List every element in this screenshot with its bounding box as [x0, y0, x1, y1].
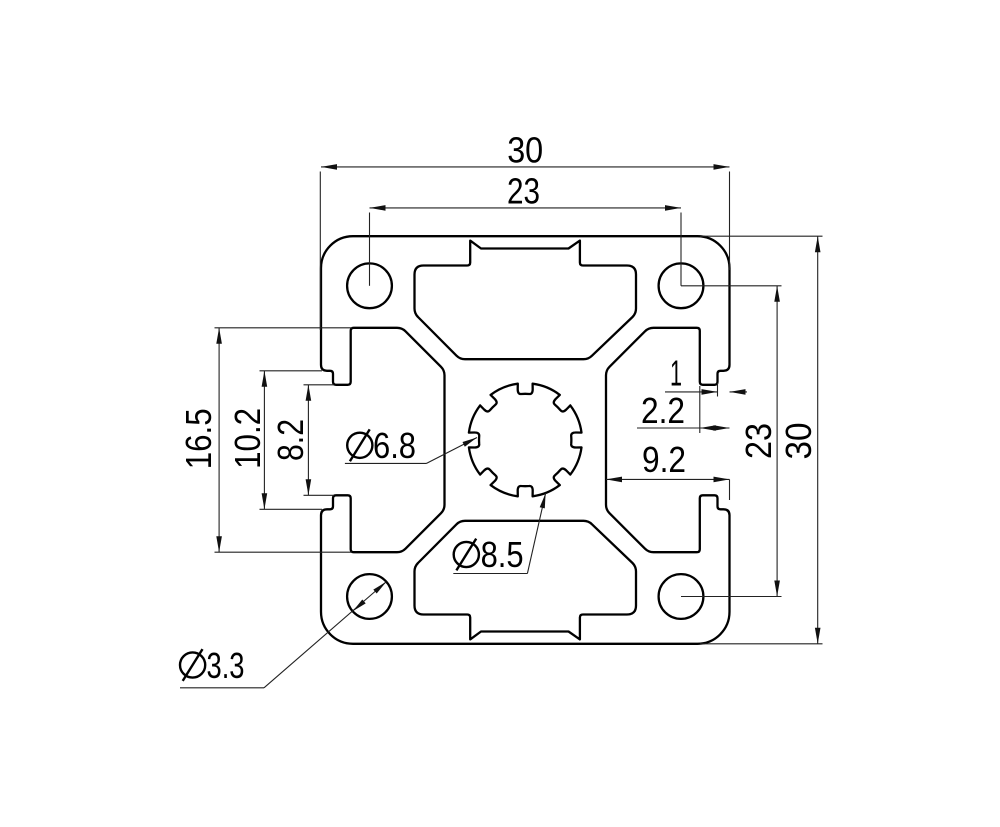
- label Ø8.5 (spline outer diameter) with leader: [453, 493, 545, 575]
- svg-text:2.2: 2.2: [641, 390, 685, 431]
- outer profile outline with left/right T-slot openings: [321, 236, 730, 644]
- dimension 8.2 (slot throat, left): [270, 385, 334, 496]
- corner hole top-right (Ø3.3): [659, 263, 704, 308]
- center spline bore: [469, 384, 582, 497]
- svg-text:1: 1: [670, 353, 682, 394]
- svg-text:8.2: 8.2: [270, 419, 311, 461]
- top cavity: [415, 241, 637, 360]
- svg-text:10.2: 10.2: [227, 408, 268, 469]
- dimension 23 (hole spacing, top): [370, 171, 682, 286]
- dimension 30 (overall height, right): [700, 236, 823, 644]
- svg-text:23: 23: [507, 171, 540, 212]
- dimension 30 (overall width, top): [320, 130, 729, 331]
- svg-text:30: 30: [507, 130, 543, 171]
- dimension 23 (hole spacing, right): [681, 286, 782, 597]
- svg-text:8.5: 8.5: [481, 534, 524, 575]
- corner hole top-left (Ø3.3): [347, 263, 392, 308]
- label Ø3.3 (corner hole diameter) with leader: [180, 582, 386, 688]
- svg-text:30: 30: [778, 423, 819, 460]
- dimension 2.2 (lip depth, right): [637, 386, 730, 433]
- svg-text:16.5: 16.5: [178, 408, 219, 469]
- svg-text:6.8: 6.8: [373, 425, 416, 466]
- label Ø6.8 (spline root diameter) with leader: [345, 425, 477, 466]
- svg-text:3.3: 3.3: [207, 645, 245, 686]
- dimension 1 (lip step width, right): [665, 353, 747, 397]
- corner hole bottom-right (Ø3.3): [659, 574, 704, 619]
- corner hole bottom-left (Ø3.3): [347, 574, 392, 619]
- dimension 16.5 (slot cavity width, left): [178, 328, 352, 552]
- svg-text:9.2: 9.2: [642, 439, 686, 480]
- svg-text:23: 23: [738, 423, 779, 459]
- dimension 10.2 (slot opening outer, left): [227, 371, 322, 510]
- bottom cavity: [415, 521, 637, 640]
- dimension 9.2 (slot depth, right): [606, 439, 730, 500]
